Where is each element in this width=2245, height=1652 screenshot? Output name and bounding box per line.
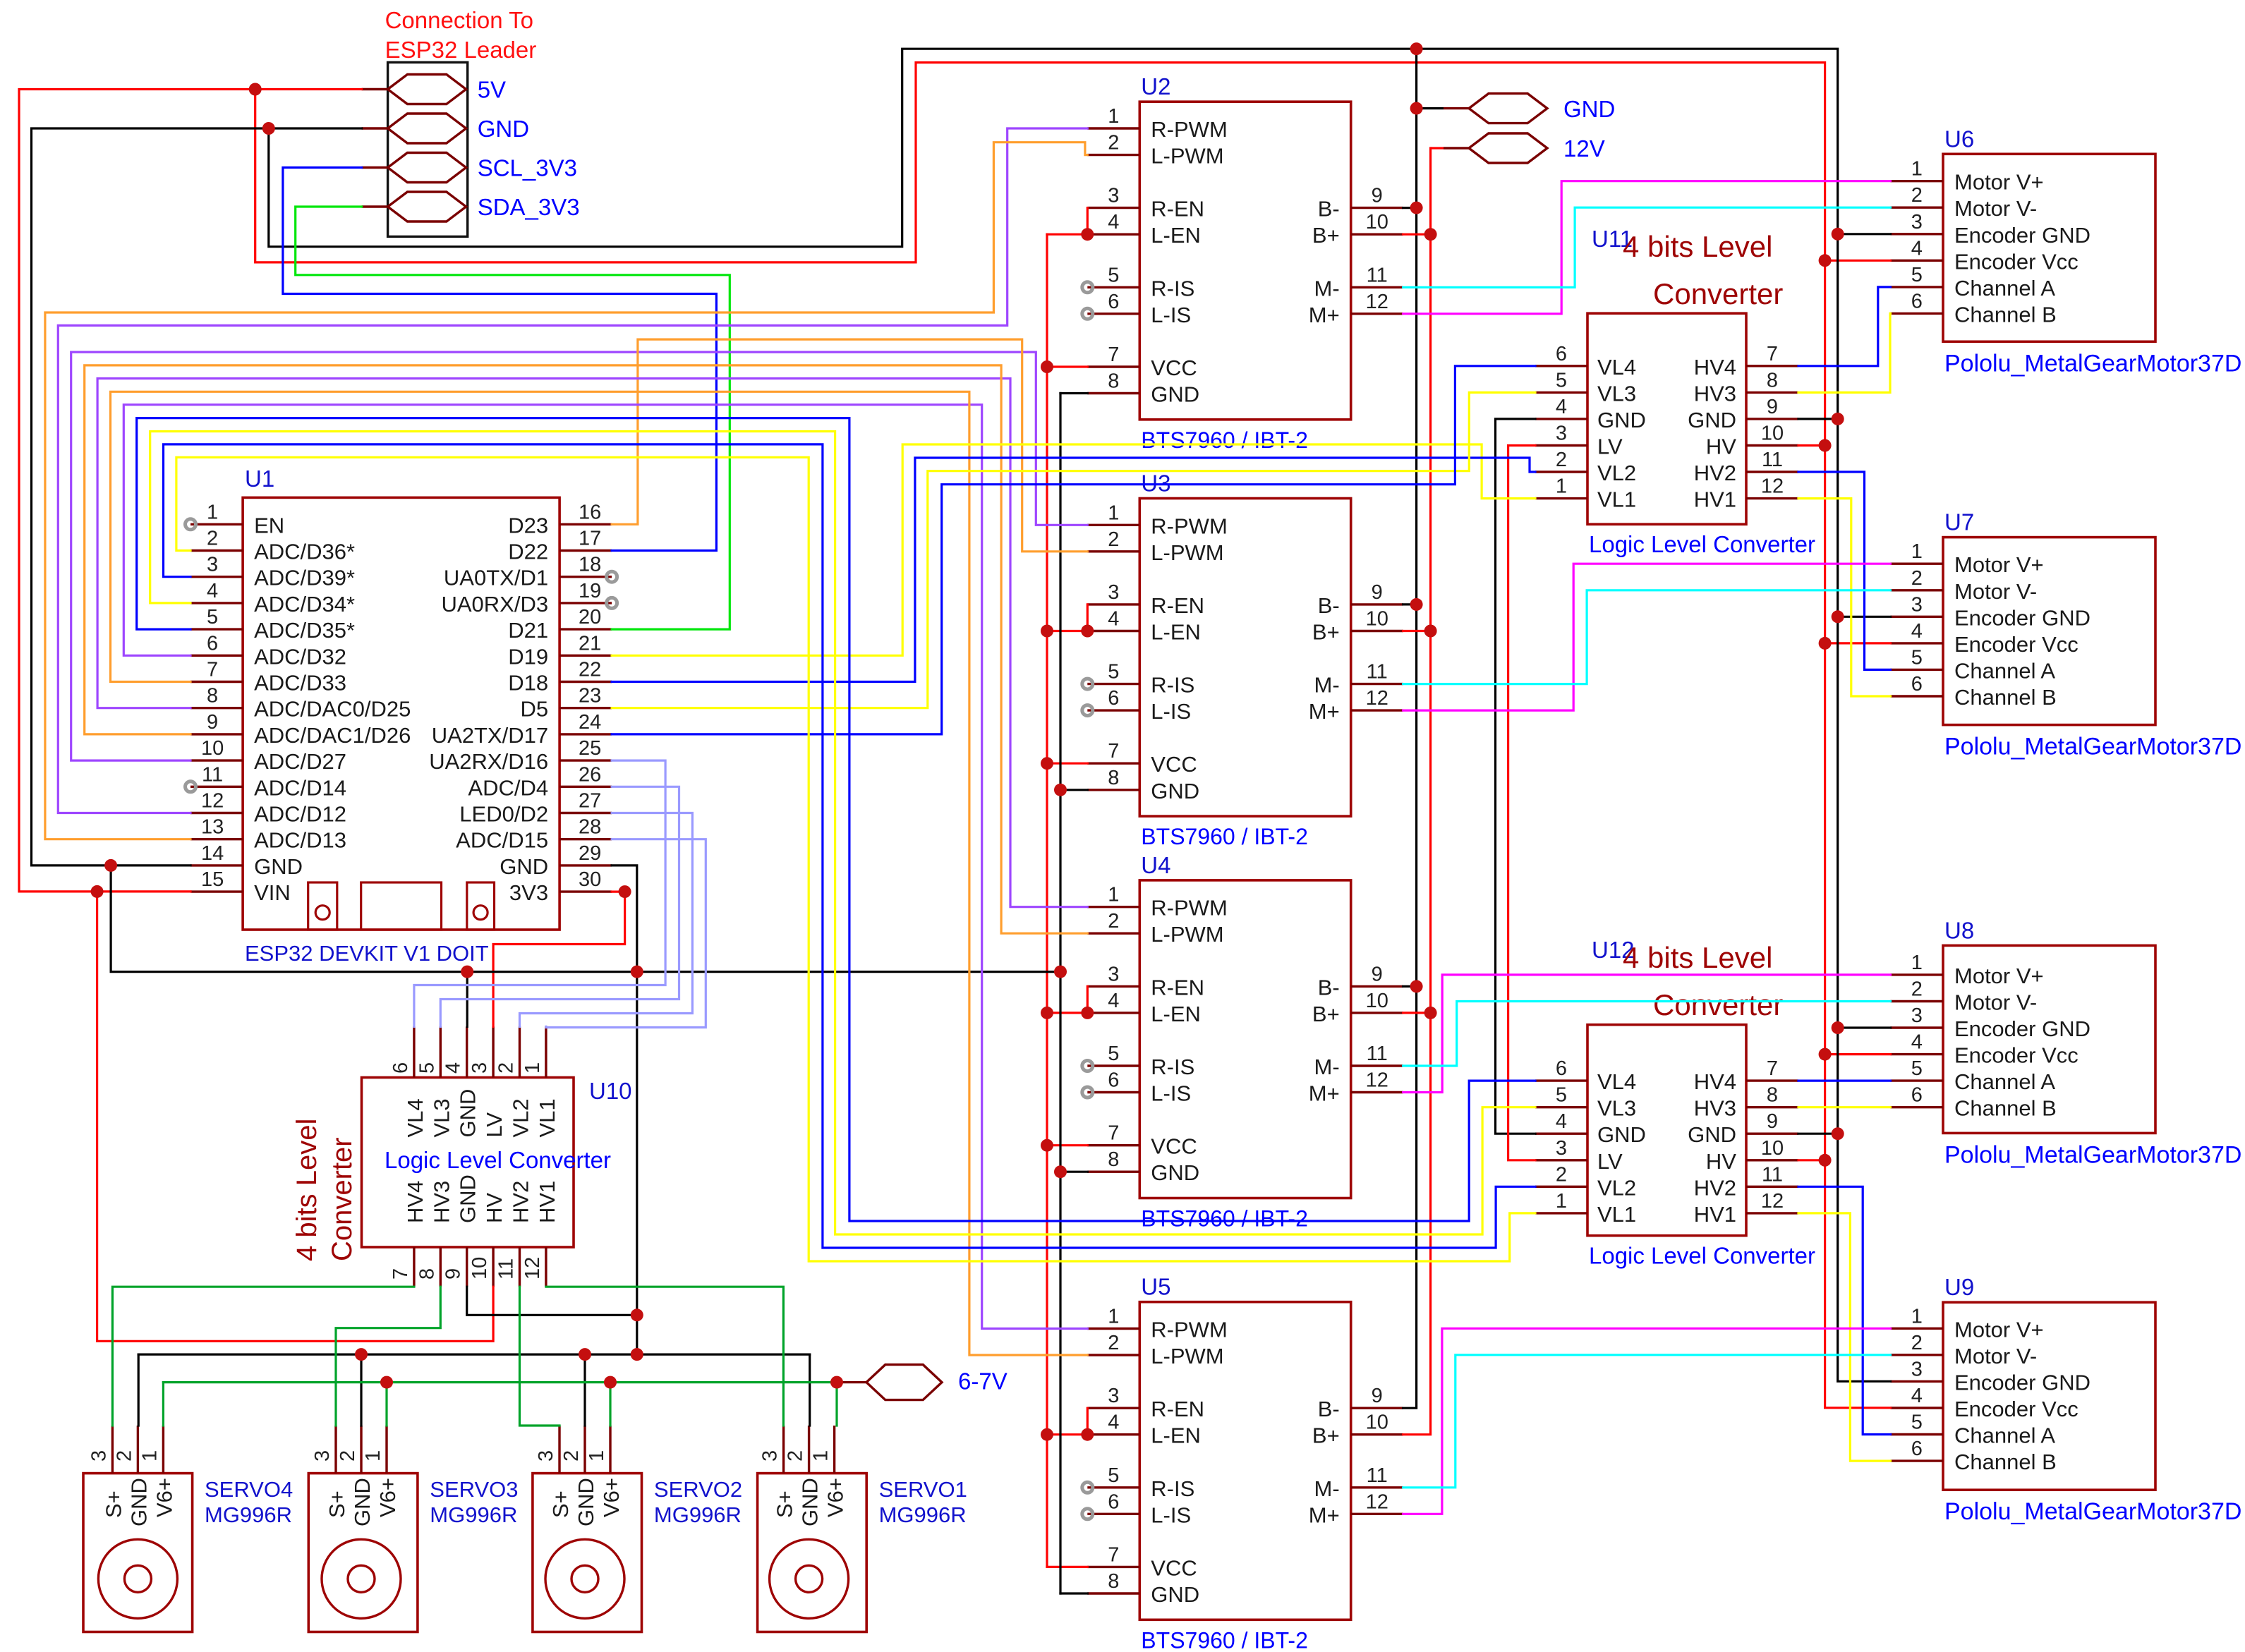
svg-text:Encoder Vcc: Encoder Vcc	[1954, 249, 2078, 274]
wire channel U11 HV2 to U7 Channel A	[1798, 472, 1891, 669]
svg-text:Channel B: Channel B	[1954, 1096, 2057, 1121]
servo SERVO3 MG996R	[308, 1426, 418, 1632]
wire U10 pin9 GND link	[467, 1287, 637, 1315]
wire PWM U1 pin13 to U2 L-PWM	[45, 142, 1087, 839]
wire PWM U1 pin7 to U5 L-PWM	[111, 391, 1088, 1355]
svg-text:SERVO2: SERVO2	[654, 1477, 742, 1502]
junction dots 12V net	[1424, 228, 1437, 1019]
svg-text:7: 7	[1108, 740, 1119, 763]
svg-text:1: 1	[1911, 540, 1923, 563]
svg-text:8: 8	[1108, 1570, 1119, 1593]
svg-text:VL4: VL4	[403, 1098, 428, 1137]
wire PWM U1 pin9 to U4 L-PWM	[85, 365, 1088, 933]
no-connect U1 pin18	[607, 571, 617, 582]
wire servo signal U10 HV1 to SERVO1 S+	[546, 1287, 784, 1426]
svg-text:4: 4	[442, 1062, 465, 1074]
svg-text:Motor V+: Motor V+	[1954, 170, 2044, 195]
svg-text:1: 1	[810, 1450, 833, 1462]
svg-text:9: 9	[1372, 185, 1383, 207]
svg-text:3: 3	[1911, 211, 1923, 233]
svg-text:L-EN: L-EN	[1151, 1423, 1201, 1448]
svg-text:1: 1	[1556, 475, 1567, 498]
svg-text:D21: D21	[508, 618, 548, 643]
svg-text:ESP32 Leader: ESP32 Leader	[385, 37, 537, 63]
connector J1 pin 3 net SCL_3V3	[362, 153, 577, 183]
svg-text:5: 5	[1108, 1043, 1119, 1065]
wire servo signal U10 HV4 to SERVO4 S+	[112, 1287, 414, 1426]
svg-text:3: 3	[1556, 1137, 1567, 1160]
svg-text:VL1: VL1	[1597, 487, 1636, 512]
svg-text:M+: M+	[1309, 1502, 1340, 1527]
svg-text:2: 2	[1108, 132, 1119, 154]
svg-text:25: 25	[579, 737, 601, 760]
wire motor wire U3 M- to U7 MotorV-	[1403, 590, 1891, 684]
svg-text:D5: D5	[520, 697, 548, 722]
wire encoder U1 pin24 to U11 VL4	[612, 366, 1535, 734]
svg-text:V6+: V6+	[599, 1478, 624, 1517]
svg-text:BTS7960 / IBT-2: BTS7960 / IBT-2	[1141, 824, 1308, 849]
svg-text:UA2TX/D17: UA2TX/D17	[432, 723, 548, 748]
no-connect U1 pin1	[186, 519, 196, 530]
svg-text:MG996R: MG996R	[430, 1502, 517, 1527]
wire B+ branch U4	[1403, 1012, 1431, 1014]
svg-text:L-IS: L-IS	[1151, 699, 1191, 724]
wire GND bus from U1 pin14 to BTS GND chain	[111, 866, 1060, 972]
svg-text:M-: M-	[1314, 276, 1340, 300]
svg-text:BTS7960 / IBT-2: BTS7960 / IBT-2	[1141, 427, 1308, 453]
svg-text:12: 12	[1761, 1190, 1784, 1213]
svg-text:2: 2	[1911, 184, 1923, 207]
wire channel U12 HV1 to U9 Channel B	[1798, 1213, 1891, 1461]
svg-text:B-: B-	[1318, 593, 1340, 618]
svg-text:1: 1	[586, 1450, 608, 1462]
svg-text:GND: GND	[500, 854, 548, 879]
svg-text:10: 10	[1366, 211, 1388, 233]
servo SERVO4 MG996R	[83, 1426, 193, 1632]
wire GND from J1 to far-left drop and U1 pin14	[32, 128, 362, 866]
svg-text:9: 9	[1372, 581, 1383, 604]
svg-text:24: 24	[579, 711, 601, 734]
svg-text:U4: U4	[1141, 852, 1170, 878]
svg-text:HV2: HV2	[509, 1181, 533, 1223]
label SERVO3	[430, 1477, 518, 1527]
svg-text:HV: HV	[482, 1193, 507, 1223]
svg-text:6: 6	[1108, 291, 1119, 313]
svg-text:3: 3	[759, 1450, 782, 1462]
svg-text:1: 1	[1556, 1190, 1567, 1213]
svg-text:27: 27	[579, 790, 601, 813]
svg-text:6-7V: 6-7V	[958, 1368, 1007, 1395]
svg-text:12: 12	[1366, 687, 1388, 710]
connector J1 pin 1 net 5V	[362, 75, 506, 104]
wire 5V servo supply drop from VIN row	[97, 892, 494, 1341]
svg-text:5: 5	[207, 606, 218, 628]
svg-text:3: 3	[1108, 963, 1119, 985]
wire channel U12 HV3 to U8 Channel B	[1798, 1106, 1891, 1108]
svg-text:8: 8	[1767, 1084, 1778, 1107]
svg-text:Motor V-: Motor V-	[1954, 1344, 2037, 1368]
wire VCC feed U2	[1047, 365, 1087, 368]
svg-text:8: 8	[1767, 369, 1778, 391]
svg-text:GND: GND	[456, 1089, 480, 1138]
svg-text:10: 10	[201, 737, 224, 760]
svg-text:VL3: VL3	[429, 1098, 454, 1137]
svg-text:3: 3	[1911, 593, 1923, 616]
wire encoder U1 pin22 to U11 VL2	[612, 458, 1535, 682]
svg-text:Pololu_MetalGearMotor37D: Pololu_MetalGearMotor37D	[1944, 1141, 2241, 1168]
wire B+ branch U2	[1403, 233, 1431, 236]
svg-text:LV: LV	[482, 1112, 507, 1138]
svg-text:12: 12	[521, 1257, 544, 1280]
wire R-EN/L-EN tie U3	[1047, 605, 1087, 631]
svg-text:L-EN: L-EN	[1151, 1002, 1201, 1026]
IC U3 BTS7960 motor driver	[1087, 499, 1403, 817]
wire PWM U1 pin16 to U3 L-PWM	[612, 339, 1087, 552]
svg-text:M-: M-	[1314, 673, 1340, 698]
svg-text:3: 3	[468, 1062, 491, 1074]
wire servo 6V drop SERVO3	[385, 1383, 387, 1426]
svg-text:6: 6	[1911, 290, 1923, 312]
svg-text:GND: GND	[1151, 382, 1199, 407]
svg-text:5: 5	[1108, 1464, 1119, 1487]
wire GND branch to top black bus and right side	[269, 49, 1891, 1381]
svg-text:V6+: V6+	[823, 1478, 848, 1517]
wire GND feed U2	[1060, 392, 1087, 394]
svg-text:3: 3	[1108, 185, 1119, 207]
svg-text:R-PWM: R-PWM	[1151, 896, 1227, 921]
svg-text:3: 3	[1556, 423, 1567, 445]
svg-text:10: 10	[1761, 1137, 1784, 1160]
svg-text:ADC/D12: ADC/D12	[254, 802, 346, 827]
svg-text:L-PWM: L-PWM	[1151, 922, 1223, 947]
svg-text:L-PWM: L-PWM	[1151, 144, 1223, 169]
servo SERVO2 MG996R	[533, 1426, 642, 1632]
svg-text:5: 5	[1556, 369, 1567, 391]
svg-text:M-: M-	[1314, 1055, 1340, 1079]
svg-text:6: 6	[1911, 673, 1923, 696]
svg-text:LV: LV	[1597, 1149, 1623, 1174]
wire Encoder Vcc branch U7	[1825, 642, 1891, 644]
svg-text:2: 2	[1911, 978, 1923, 1001]
svg-text:18: 18	[579, 554, 601, 576]
svg-text:2: 2	[1108, 910, 1119, 933]
svg-text:1: 1	[138, 1450, 161, 1462]
svg-text:9: 9	[1767, 396, 1778, 418]
svg-text:Connection To: Connection To	[385, 7, 533, 33]
wire servo GND bus	[138, 1353, 809, 1355]
svg-text:B-: B-	[1318, 975, 1340, 1000]
wire SDA_3V3 to U1 D21	[296, 207, 730, 629]
svg-text:Channel B: Channel B	[1954, 1450, 2057, 1474]
svg-text:4: 4	[1911, 620, 1923, 643]
svg-text:L-EN: L-EN	[1151, 223, 1201, 248]
svg-text:ADC/D34*: ADC/D34*	[254, 592, 355, 617]
svg-text:HV1: HV1	[1694, 1202, 1736, 1227]
svg-text:4: 4	[1911, 1031, 1923, 1054]
svg-text:6: 6	[1108, 1069, 1119, 1092]
wire HV branch U12	[1798, 1159, 1825, 1161]
svg-text:1: 1	[521, 1062, 544, 1074]
svg-text:1: 1	[1911, 952, 1923, 974]
wire servo GND drop SERVO1	[809, 1354, 811, 1426]
svg-text:Channel B: Channel B	[1954, 302, 2057, 327]
svg-text:HV4: HV4	[1694, 1069, 1736, 1094]
wire GND vertical to B- pins	[1403, 49, 1417, 1408]
svg-text:11: 11	[1367, 264, 1388, 286]
svg-text:8: 8	[207, 685, 218, 707]
svg-text:11: 11	[1367, 1464, 1388, 1487]
motor U8 Pololu MetalGearMotor37D	[1891, 945, 2156, 1133]
svg-text:4: 4	[1911, 1385, 1923, 1407]
svg-text:GND: GND	[574, 1478, 598, 1526]
wire PWM U1 pin6 to U5 R-PWM	[123, 405, 1087, 1329]
svg-text:SCL_3V3: SCL_3V3	[478, 155, 577, 181]
svg-text:B+: B+	[1312, 1423, 1340, 1448]
svg-text:M+: M+	[1309, 699, 1340, 724]
svg-text:U5: U5	[1141, 1274, 1170, 1300]
wire PWM U1 pin12 to U2 R-PWM	[58, 128, 1087, 813]
wire VCC feed U3	[1047, 763, 1087, 765]
svg-text:VL3: VL3	[1597, 381, 1636, 406]
wire R-EN/L-EN tie U2	[1047, 208, 1087, 235]
svg-text:1: 1	[1108, 884, 1119, 906]
svg-text:VL4: VL4	[1597, 1069, 1636, 1094]
svg-text:8: 8	[1108, 370, 1119, 393]
svg-text:ADC/DAC1/D26: ADC/DAC1/D26	[254, 723, 411, 748]
svg-text:1: 1	[1108, 502, 1119, 524]
svg-text:Channel A: Channel A	[1954, 276, 2055, 300]
wire encoder U1 pin21 to U11 VL1	[612, 444, 1535, 655]
svg-text:HV1: HV1	[535, 1181, 559, 1223]
svg-text:R-IS: R-IS	[1151, 1055, 1194, 1079]
svg-text:MG996R: MG996R	[879, 1502, 967, 1527]
wire Encoder GND branch U8	[1838, 1026, 1891, 1028]
svg-text:ADC/D13: ADC/D13	[254, 828, 346, 853]
svg-text:14: 14	[201, 842, 224, 865]
svg-text:VCC: VCC	[1151, 356, 1197, 380]
svg-text:VL2: VL2	[1597, 1175, 1636, 1200]
label 4 bits Level Converter (U11)	[1623, 230, 1783, 310]
svg-text:U9: U9	[1944, 1274, 1974, 1300]
svg-text:UA0RX/D3: UA0RX/D3	[441, 592, 548, 617]
svg-text:10: 10	[468, 1257, 491, 1280]
svg-text:1: 1	[1911, 1305, 1923, 1328]
wire Encoder GND branch U7	[1838, 616, 1891, 618]
power flag 12V	[1431, 133, 1605, 163]
svg-text:5: 5	[1911, 646, 1923, 669]
svg-text:6: 6	[1911, 1084, 1923, 1107]
svg-text:3: 3	[207, 554, 218, 576]
svg-text:V6+: V6+	[375, 1478, 400, 1517]
svg-text:D19: D19	[508, 644, 548, 669]
wire B- branch U2	[1403, 207, 1417, 209]
IC U10 logic level converter	[362, 1026, 574, 1287]
svg-text:8: 8	[416, 1268, 438, 1280]
wire encoder U1 pin4 to U12 VL3	[150, 432, 1535, 1235]
svg-text:HV3: HV3	[1694, 381, 1736, 406]
wire channel U11 HV3 to U6 Channel B	[1798, 313, 1891, 392]
wire GND drop to U10 pin4	[466, 972, 468, 1027]
svg-text:M-: M-	[1314, 1476, 1340, 1501]
wire servo signal U10 HV3 to SERVO3 S+	[336, 1287, 440, 1426]
svg-text:19: 19	[579, 580, 601, 602]
svg-text:2: 2	[337, 1450, 359, 1462]
junction dots GND top net	[262, 42, 1844, 1140]
svg-text:4: 4	[1556, 396, 1567, 418]
svg-text:R-EN: R-EN	[1151, 197, 1204, 221]
wire VCC feed U4	[1047, 1144, 1087, 1146]
svg-text:Channel A: Channel A	[1954, 1069, 2055, 1094]
wire motor wire U4 M- to U8 MotorV-	[1403, 1002, 1891, 1067]
svg-text:LV: LV	[1597, 435, 1623, 459]
no-connect U5 pin5 R-IS	[1082, 1482, 1093, 1493]
svg-text:B-: B-	[1318, 197, 1340, 221]
svg-text:6: 6	[207, 632, 218, 655]
svg-text:9: 9	[442, 1268, 465, 1280]
wire LV tie U11-U12	[1508, 446, 1535, 1160]
svg-text:BTS7960 / IBT-2: BTS7960 / IBT-2	[1141, 1627, 1308, 1652]
svg-text:5: 5	[1108, 264, 1119, 286]
svg-text:L-EN: L-EN	[1151, 620, 1201, 645]
no-connect U2 pin5 R-IS	[1082, 282, 1093, 293]
svg-text:5: 5	[1911, 1057, 1923, 1080]
svg-text:5: 5	[416, 1062, 438, 1074]
motor U7 Pololu MetalGearMotor37D	[1891, 537, 2156, 725]
svg-text:Motor V-: Motor V-	[1954, 990, 2037, 1015]
svg-text:6: 6	[1556, 1057, 1567, 1080]
wire GND feed U5	[1060, 1592, 1087, 1594]
svg-text:11: 11	[1762, 449, 1783, 471]
svg-text:3: 3	[1108, 581, 1119, 604]
svg-text:5: 5	[1108, 661, 1119, 684]
svg-text:2: 2	[207, 528, 218, 550]
svg-text:4 bits Level: 4 bits Level	[291, 1119, 322, 1261]
svg-text:VCC: VCC	[1151, 1555, 1197, 1580]
svg-text:6: 6	[1108, 687, 1119, 710]
svg-text:2: 2	[1556, 1163, 1567, 1186]
wire GND branch U11 pin9	[1798, 418, 1838, 420]
IC U1 ESP32 DEVKIT V1 DOIT	[190, 497, 612, 930]
svg-text:SERVO3: SERVO3	[430, 1477, 518, 1502]
svg-text:Converter: Converter	[1653, 277, 1783, 310]
svg-text:Encoder GND: Encoder GND	[1954, 605, 2090, 630]
label SERVO4	[205, 1477, 293, 1527]
wire GND tie U11-U12 left pins	[1496, 419, 1536, 1134]
svg-text:L-IS: L-IS	[1151, 303, 1191, 327]
svg-text:VCC: VCC	[1151, 1134, 1197, 1159]
svg-text:4: 4	[1108, 608, 1119, 631]
svg-text:Channel A: Channel A	[1954, 658, 2055, 683]
svg-text:Channel A: Channel A	[1954, 1423, 2055, 1448]
svg-text:Encoder GND: Encoder GND	[1954, 223, 2090, 248]
svg-text:UA0TX/D1: UA0TX/D1	[444, 566, 548, 590]
svg-text:Logic Level Converter: Logic Level Converter	[1589, 1243, 1815, 1269]
wire B- branch U3	[1403, 603, 1417, 605]
label SERVO2	[654, 1477, 742, 1527]
svg-text:GND: GND	[478, 116, 529, 142]
svg-text:HV2: HV2	[1694, 461, 1736, 485]
svg-text:4: 4	[207, 580, 218, 602]
svg-text:Motor V+: Motor V+	[1954, 1317, 2044, 1342]
wire motor wire U3 M+ to U7 MotorV+	[1403, 564, 1891, 710]
wire channel U12 HV2 to U9 Channel A	[1798, 1186, 1891, 1434]
svg-text:R-IS: R-IS	[1151, 673, 1194, 698]
svg-text:SERVO4: SERVO4	[205, 1477, 293, 1502]
svg-text:12V: 12V	[1563, 135, 1605, 162]
no-connect U1 pin19	[607, 597, 617, 608]
svg-text:V6+: V6+	[152, 1478, 176, 1517]
junction dots 5V net	[91, 83, 1832, 1167]
svg-text:9: 9	[207, 711, 218, 734]
wire servo GND drop SERVO2	[583, 1354, 586, 1426]
svg-text:VL2: VL2	[1597, 461, 1636, 485]
svg-text:Encoder GND: Encoder GND	[1954, 1016, 2090, 1041]
svg-text:Motor V+: Motor V+	[1954, 964, 2044, 988]
svg-text:VL2: VL2	[509, 1098, 533, 1137]
svg-text:29: 29	[579, 842, 601, 865]
svg-text:U2: U2	[1141, 73, 1170, 99]
junction dots servo 6V bus	[380, 1376, 843, 1389]
wire GND feed U4	[1060, 1171, 1087, 1173]
svg-text:ADC/D39*: ADC/D39*	[254, 566, 355, 590]
svg-text:HV4: HV4	[1694, 355, 1736, 379]
svg-text:L-IS: L-IS	[1151, 1502, 1191, 1527]
junction dots VCC chain	[1041, 228, 1094, 1441]
wire servo 6V drop SERVO4	[162, 1383, 164, 1426]
svg-text:ADC/D4: ADC/D4	[468, 775, 548, 800]
svg-text:Encoder Vcc: Encoder Vcc	[1954, 632, 2078, 657]
svg-text:1: 1	[207, 501, 218, 523]
svg-text:ADC/D27: ADC/D27	[254, 749, 346, 774]
svg-text:B+: B+	[1312, 1002, 1340, 1026]
svg-text:8: 8	[1108, 1148, 1119, 1171]
svg-text:4: 4	[1556, 1110, 1567, 1133]
svg-text:7: 7	[1767, 343, 1778, 365]
svg-text:GND: GND	[1151, 779, 1199, 803]
wire channel U11 HV4 to U6 Channel A	[1798, 287, 1891, 366]
svg-text:Pololu_MetalGearMotor37D: Pololu_MetalGearMotor37D	[1944, 350, 2241, 377]
svg-text:GND: GND	[798, 1478, 823, 1526]
svg-text:Pololu_MetalGearMotor37D: Pololu_MetalGearMotor37D	[1944, 734, 2241, 760]
label SERVO1	[879, 1477, 967, 1527]
IC U5 BTS7960 motor driver	[1087, 1302, 1403, 1620]
svg-text:GND: GND	[456, 1174, 480, 1223]
svg-text:S+: S+	[325, 1490, 349, 1518]
svg-text:Motor V-: Motor V-	[1954, 579, 2037, 604]
svg-text:2: 2	[495, 1062, 518, 1074]
connector J1 pin 4 net SDA_3V3	[362, 192, 580, 221]
svg-text:GND: GND	[1688, 408, 1736, 432]
svg-text:GND: GND	[1688, 1122, 1736, 1147]
svg-text:B+: B+	[1312, 620, 1340, 645]
svg-text:Motor V-: Motor V-	[1954, 196, 2037, 221]
wire VCC chain vertical	[1046, 234, 1048, 1567]
svg-text:30: 30	[579, 868, 601, 891]
no-connect U1 pin11	[186, 782, 196, 792]
svg-text:16: 16	[579, 501, 601, 523]
svg-text:Encoder Vcc: Encoder Vcc	[1954, 1397, 2078, 1421]
svg-text:3: 3	[535, 1450, 557, 1462]
wire servo 6V bus	[163, 1381, 837, 1383]
svg-text:6: 6	[1556, 343, 1567, 365]
wire encoder U1 pin5 to U12 VL4	[137, 418, 1535, 1221]
svg-text:BTS7960 / IBT-2: BTS7960 / IBT-2	[1141, 1206, 1308, 1232]
svg-text:R-IS: R-IS	[1151, 1476, 1194, 1501]
svg-text:ADC/D14: ADC/D14	[254, 775, 346, 800]
svg-text:22: 22	[579, 659, 601, 681]
IC U4 BTS7960 motor driver	[1087, 880, 1403, 1198]
wire lavender U1 pin25 to U10	[414, 760, 665, 1026]
